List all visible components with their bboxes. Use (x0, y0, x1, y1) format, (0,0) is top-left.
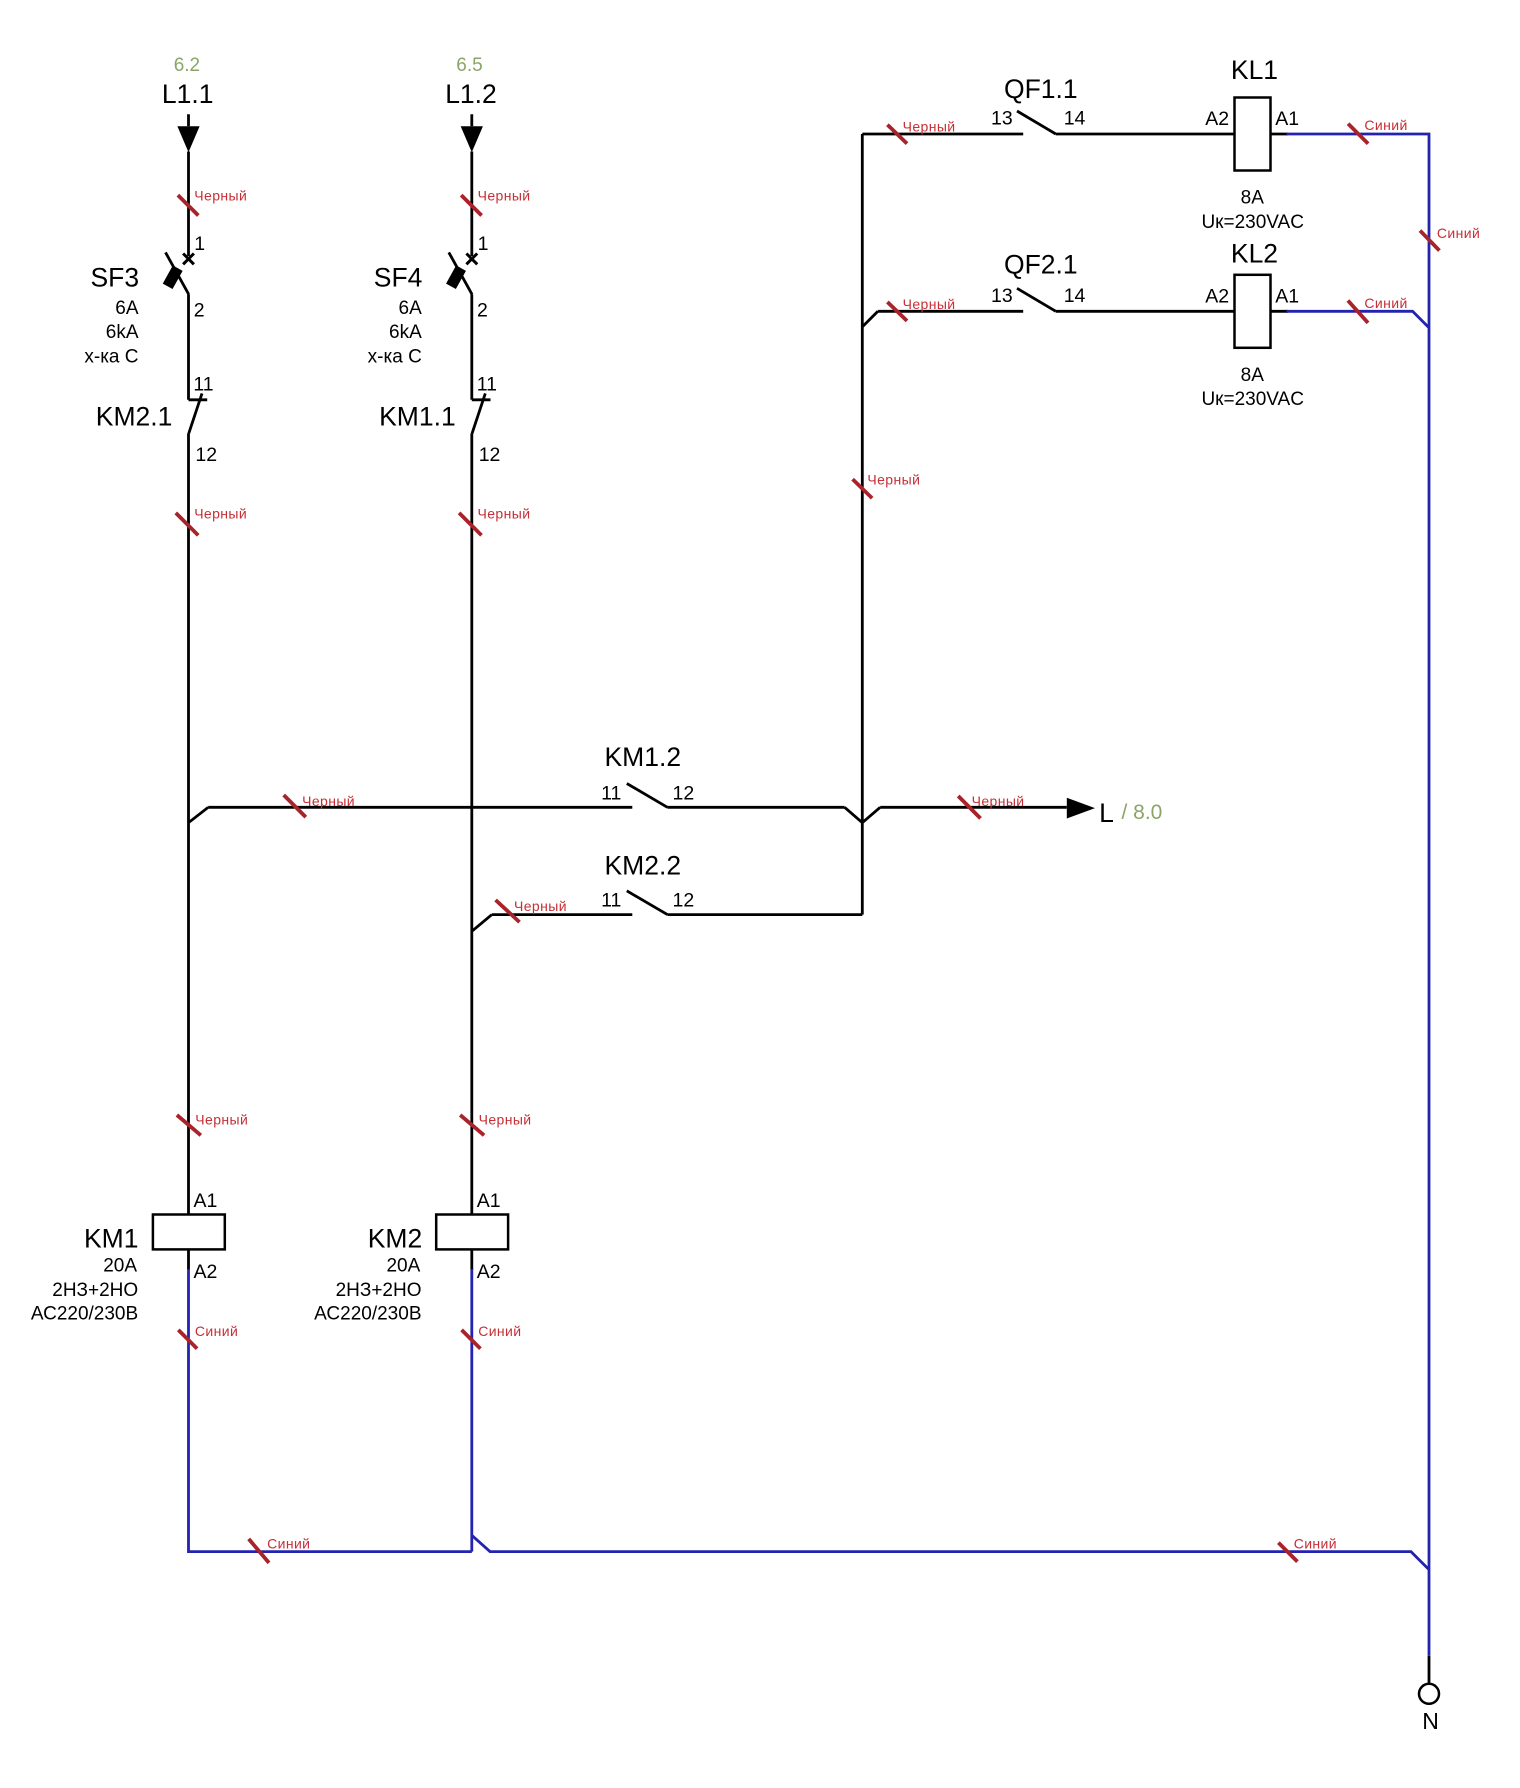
svg-text:1: 1 (478, 233, 489, 255)
svg-text:Черный: Черный (867, 472, 920, 488)
svg-text:A2: A2 (477, 1261, 501, 1283)
svg-text:SF4: SF4 (374, 263, 423, 293)
svg-text:L: L (1099, 798, 1114, 828)
svg-text:L1.1: L1.1 (162, 79, 214, 109)
svg-text:14: 14 (1064, 108, 1086, 130)
svg-text:Черный: Черный (194, 505, 247, 521)
svg-text:20A: 20A (386, 1256, 420, 1277)
svg-text:L1.2: L1.2 (445, 79, 497, 109)
svg-text:SF3: SF3 (91, 263, 140, 293)
svg-text:KL2: KL2 (1231, 239, 1278, 269)
svg-text:Синий: Синий (267, 1536, 310, 1552)
svg-text:12: 12 (673, 782, 695, 804)
svg-text:Uк=230VAC: Uк=230VAC (1201, 212, 1304, 233)
svg-text:KM2.1: KM2.1 (96, 401, 173, 431)
svg-text:Синий: Синий (195, 1323, 238, 1339)
svg-text:2НЗ+2НО: 2НЗ+2НО (336, 1280, 422, 1301)
svg-text:6.5: 6.5 (456, 55, 482, 76)
svg-text:11: 11 (477, 374, 497, 396)
svg-text:х-ка С: х-ка С (368, 346, 422, 367)
svg-text:1: 1 (194, 233, 205, 255)
svg-text:Черный: Черный (903, 119, 956, 135)
svg-text:A2: A2 (1205, 108, 1229, 130)
svg-text:2: 2 (194, 300, 205, 322)
svg-text:Черный: Черный (972, 793, 1025, 809)
svg-text:6kA: 6kA (106, 322, 139, 343)
svg-text:Черный: Черный (478, 505, 531, 521)
svg-text:12: 12 (195, 444, 217, 466)
svg-text:A2: A2 (1205, 285, 1229, 307)
svg-text:14: 14 (1064, 285, 1086, 307)
svg-text:2: 2 (477, 300, 488, 322)
svg-text:Черный: Черный (302, 793, 355, 809)
svg-text:/ 8.0: / 8.0 (1122, 801, 1163, 824)
svg-text:A1: A1 (1275, 108, 1299, 130)
svg-text:6A: 6A (399, 298, 423, 319)
svg-text:6A: 6A (115, 298, 139, 319)
svg-text:11: 11 (193, 374, 213, 396)
svg-text:Черный: Черный (903, 296, 956, 312)
svg-text:QF2.1: QF2.1 (1004, 250, 1078, 280)
svg-text:Черный: Черный (479, 1111, 532, 1127)
svg-text:KM1.2: KM1.2 (605, 742, 682, 772)
svg-text:KL1: KL1 (1231, 55, 1278, 85)
svg-text:12: 12 (673, 890, 695, 912)
svg-text:Синий: Синий (478, 1323, 521, 1339)
svg-text:KM1.1: KM1.1 (379, 401, 456, 431)
svg-text:N: N (1422, 1708, 1439, 1734)
svg-text:13: 13 (991, 285, 1013, 307)
svg-text:АС220/230В: АС220/230В (314, 1304, 421, 1325)
svg-text:2НЗ+2НО: 2НЗ+2НО (52, 1280, 138, 1301)
svg-text:8A: 8A (1241, 365, 1265, 386)
svg-text:Синий: Синий (1437, 225, 1480, 241)
svg-text:A2: A2 (194, 1261, 218, 1283)
svg-text:13: 13 (991, 108, 1013, 130)
svg-text:АС220/230В: АС220/230В (31, 1304, 138, 1325)
svg-text:11: 11 (601, 782, 621, 804)
svg-text:Черный: Черный (194, 188, 247, 204)
svg-text:Черный: Черный (478, 188, 531, 204)
svg-text:Uк=230VAC: Uк=230VAC (1201, 389, 1304, 410)
svg-text:KM2: KM2 (368, 1224, 423, 1254)
svg-text:х-ка С: х-ка С (84, 346, 138, 367)
svg-text:11: 11 (601, 890, 621, 912)
svg-text:Синий: Синий (1364, 117, 1407, 133)
svg-text:KM1: KM1 (84, 1224, 139, 1254)
svg-text:12: 12 (479, 444, 501, 466)
svg-text:A1: A1 (194, 1190, 218, 1212)
svg-text:6.2: 6.2 (174, 55, 200, 76)
svg-text:Синий: Синий (1364, 295, 1407, 311)
svg-text:Черный: Черный (195, 1111, 248, 1127)
svg-text:QF1.1: QF1.1 (1004, 74, 1078, 104)
svg-text:A1: A1 (1275, 285, 1299, 307)
svg-text:20A: 20A (103, 1256, 137, 1277)
svg-text:8A: 8A (1241, 188, 1265, 209)
svg-text:A1: A1 (477, 1190, 501, 1212)
svg-text:6kA: 6kA (389, 322, 422, 343)
svg-text:KM2.2: KM2.2 (605, 850, 682, 880)
svg-text:Синий: Синий (1294, 1535, 1337, 1551)
svg-text:Черный: Черный (514, 898, 567, 914)
